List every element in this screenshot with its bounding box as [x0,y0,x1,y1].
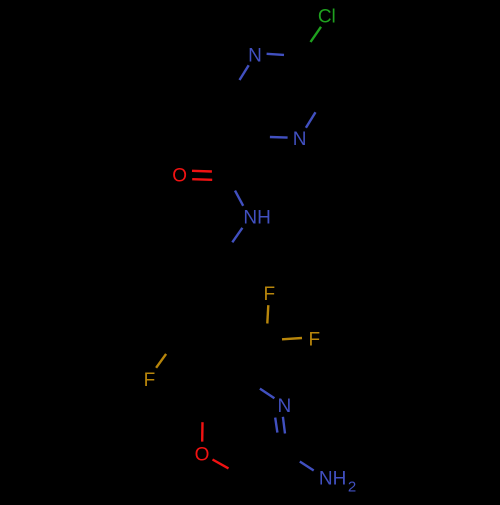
svg-text:O: O [195,444,210,465]
wire N9-Ca bond (nitrogen half) [232,228,242,243]
svg-text:F: F [144,370,156,391]
wire CF-F1 bond (fluorine half) [267,305,268,323]
svg-text:F: F [263,284,275,305]
wire C7-N9 amide bond (nitrogen half) [235,191,243,206]
svg-text:F: F [308,329,320,350]
wire C7=O8 double bond upper line (oxygen half) [192,170,212,173]
wire N4x=C5x double bond inner line (nitrogen half) [275,418,277,433]
wire N4-C3 bond (nitrogen half) [306,112,316,128]
wire CF-F2 bond (fluorine half) [282,338,302,339]
svg-text:N: N [248,45,262,66]
wire N4x=C5x double bond main line (nitrogen half) [283,417,285,434]
wire O1x-Co2 bond (oxygen half) [213,460,229,469]
wire N1-C6 bond (nitrogen half) [240,65,249,80]
wire C5x-NH2 bond (nitrogen half) [300,462,314,471]
svg-text:NH: NH [243,208,270,229]
wire N1-C2 bond (nitrogen half) [267,54,284,55]
svg-text:N: N [293,129,307,150]
wire O1x-Co1 bond (oxygen half) [201,422,204,441]
wire C7=O8 double bond lower line (oxygen half) [192,178,212,181]
wire N4-C5 bond (nitrogen half) [270,136,288,139]
wire Cl-C2 bond (chlorine half) [311,27,322,42]
svg-text:N: N [278,396,292,417]
wire N4x-Cq bond (nitrogen half) [260,389,275,399]
svg-text:O: O [172,165,187,186]
wire Cb-F3 bond (fluorine half) [156,354,166,368]
svg-text:Cl: Cl [318,6,336,27]
